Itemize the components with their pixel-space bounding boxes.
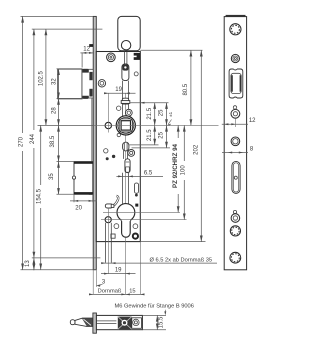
extension y=50.3 xyxy=(140,49,202,51)
dimension Dornmass / 15 xyxy=(90,293,145,295)
rod slot lines below case xyxy=(104,223,106,263)
small ring left xyxy=(104,149,108,153)
extension y=194.3 xyxy=(57,193,75,195)
lever (Wechsel) curved arm xyxy=(113,196,118,206)
bolt box (Riegel) xyxy=(74,162,93,195)
latch inside opening xyxy=(231,73,241,93)
dimension 12 top xyxy=(80,52,94,54)
faceplate lines extension below xyxy=(92,270,94,295)
dimension 25 upper xyxy=(166,103,168,126)
drive rod mid segment xyxy=(122,151,124,159)
small slot right mid xyxy=(134,183,138,193)
extension y=98.5 xyxy=(57,98,83,100)
ring hole cylinder level xyxy=(231,214,240,223)
dimension 154.5 xyxy=(40,125,42,269)
small dark dot left xyxy=(112,155,115,158)
svg-text:25: 25 xyxy=(159,109,165,116)
svg-text:21.5: 21.5 xyxy=(147,107,153,119)
extension y=102.7 xyxy=(130,102,169,104)
drive rod upper segment xyxy=(122,81,124,117)
plate dark top bar xyxy=(226,15,246,17)
dimension 102.5 xyxy=(45,29,47,125)
svg-text:244: 244 xyxy=(30,133,36,144)
serrated screw hole top xyxy=(230,24,241,35)
faceplate plate xyxy=(224,17,246,270)
dimension 12 right view xyxy=(222,123,248,125)
svg-text:28: 28 xyxy=(51,107,57,114)
rod connector hole xyxy=(121,41,130,50)
pin capsule mid xyxy=(125,159,130,173)
svg-text:19: 19 xyxy=(115,87,122,93)
dimension 270 xyxy=(22,16,24,269)
dimension 13 xyxy=(33,258,35,270)
latch bolt dark bar lower xyxy=(89,89,92,97)
svg-text:21.5: 21.5 xyxy=(147,129,153,141)
M6 dark box xyxy=(118,317,132,330)
svg-text:25: 25 xyxy=(159,131,165,138)
extension y=68.8 xyxy=(57,68,60,70)
svg-text:6.5: 6.5 xyxy=(144,170,153,176)
dimension 19 bottom xyxy=(101,273,136,275)
rod slot xyxy=(232,161,240,193)
extension y=161.6 xyxy=(57,161,75,163)
case right edge extension below xyxy=(139,242,141,295)
extension line y=29.1 xyxy=(32,28,103,30)
black nub on faceplate lower xyxy=(89,191,94,195)
black nub on faceplate upper xyxy=(89,44,93,47)
tiny hole above cylinder xyxy=(233,210,236,213)
latch tip cap xyxy=(70,320,75,325)
dimension 20 xyxy=(73,194,75,202)
top screw head xyxy=(107,53,116,62)
svg-text:PZ 92/CHRZ 94: PZ 92/CHRZ 94 xyxy=(172,143,179,188)
dimension 202 xyxy=(200,50,202,241)
latch bolt dark bottom notch xyxy=(82,96,89,99)
dimension 244 xyxy=(33,29,35,258)
spring anchor black blob at case top right xyxy=(137,53,141,60)
rod stem above spring capsule xyxy=(123,52,125,65)
faceplate top edge extension to left xyxy=(21,15,94,17)
follower rounded square xyxy=(119,119,132,132)
extension y=144.9 xyxy=(130,144,159,146)
extension y=147.9 xyxy=(132,147,171,149)
roller ring right of rod xyxy=(128,150,135,157)
latch bolt dark bar upper xyxy=(89,72,92,80)
tiny circle above follower xyxy=(117,106,121,110)
dark ring bottom right xyxy=(133,234,138,239)
dimension 19 top xyxy=(104,92,136,94)
second box with ring xyxy=(132,318,142,329)
svg-text:15.5: 15.5 xyxy=(158,316,164,328)
rod connector box top xyxy=(118,16,140,50)
upper fixing hole with crosshair xyxy=(105,122,111,128)
svg-text:202: 202 xyxy=(193,144,199,155)
dimension 38.5 xyxy=(58,125,60,161)
ring hole xyxy=(231,109,240,118)
dimension 25 lower xyxy=(166,125,168,147)
faceplate (edge-on strip) xyxy=(93,16,96,269)
cylinder keyhole channel xyxy=(122,220,131,237)
dimension 28 xyxy=(58,99,60,126)
serrated hole lower 1 xyxy=(230,226,240,236)
follower centerline xyxy=(93,124,218,126)
follower (nut) outer circle xyxy=(116,116,135,135)
central axis line xyxy=(125,93,127,294)
svg-text:Ø 6.5 2x ab Dornmaß 35: Ø 6.5 2x ab Dornmaß 35 xyxy=(150,257,213,263)
dimension 21.5 lower xyxy=(154,125,156,144)
latch opening xyxy=(229,69,243,98)
ring above follower xyxy=(125,109,132,116)
svg-text:102.5: 102.5 xyxy=(39,70,45,86)
latch bolt dark top notch xyxy=(82,69,89,73)
dimension 100 xyxy=(183,125,185,219)
tiny pin hole xyxy=(233,106,236,109)
lever foot capsule xyxy=(105,204,112,208)
spring capsule top xyxy=(122,64,129,81)
latch wedge xyxy=(75,318,93,326)
dimension 80.5 xyxy=(190,50,192,125)
dimension 32 xyxy=(58,69,60,99)
cylinder keyhole circle xyxy=(117,204,135,222)
serrated hole lower 2 xyxy=(230,252,241,263)
latch bolt behind plate xyxy=(82,69,93,98)
svg-text:154.5: 154.5 xyxy=(37,188,43,204)
black blob near cylinder top right xyxy=(135,204,138,207)
svg-text:270: 270 xyxy=(19,136,25,147)
dimension 35 xyxy=(58,162,60,195)
extension y=241.6 xyxy=(140,241,205,243)
svg-text:20: 20 xyxy=(75,206,82,212)
latch wedge dark bevel xyxy=(82,318,93,326)
side case xyxy=(96,315,142,329)
svg-text:M6 Gewinde für Stange B 9006: M6 Gewinde für Stange B 9006 xyxy=(115,303,194,309)
small square bottom left xyxy=(111,234,115,238)
drive rod lower segment xyxy=(122,173,124,204)
svg-text:32: 32 xyxy=(51,78,57,85)
svg-text:±1: ±1 xyxy=(168,111,173,117)
extension line y=257.9 xyxy=(32,257,101,259)
latch head xyxy=(58,69,82,99)
svg-text:Dornmaß: Dornmaß xyxy=(98,288,122,294)
screw hole mid xyxy=(231,137,240,146)
svg-text:80.5: 80.5 xyxy=(183,83,189,95)
clevis block xyxy=(123,142,129,151)
dimension 8 right view xyxy=(222,152,248,154)
small circle right of capsule xyxy=(134,72,138,76)
follower square hole xyxy=(121,121,130,130)
svg-text:15: 15 xyxy=(129,288,135,294)
svg-text:35: 35 xyxy=(49,173,55,180)
plate slot line latch to bolt xyxy=(91,99,93,162)
dimension 21.5 upper xyxy=(154,103,156,126)
dimension 15.5 xyxy=(142,314,166,316)
leader line for oe 6.5 text xyxy=(102,262,217,264)
latch guide ring on faceplate xyxy=(98,80,105,87)
faceplate bottom edge extension to left xyxy=(21,269,97,271)
tiny circle below follower left xyxy=(117,133,120,136)
lower fixing hole with crosshair xyxy=(105,217,111,223)
svg-text:12: 12 xyxy=(249,118,256,124)
M6 leader arrow xyxy=(164,310,166,314)
svg-text:12: 12 xyxy=(83,46,90,52)
dimension 6.5 xyxy=(116,175,163,177)
extension line y=125.4 left xyxy=(38,124,94,126)
small circle left of cylinder xyxy=(114,224,119,229)
small circle right of cylinder xyxy=(133,224,138,229)
svg-text:13: 13 xyxy=(25,260,31,267)
svg-text:100: 100 xyxy=(180,165,186,176)
lock case xyxy=(96,52,140,242)
svg-text:19: 19 xyxy=(115,268,122,274)
countersunk hole xyxy=(231,54,239,62)
cylinder centerline xyxy=(103,211,180,213)
dimension PZ 92 / CHRZ 94 xyxy=(177,125,179,212)
svg-text:38.5: 38.5 xyxy=(50,135,56,147)
side faceplate bar xyxy=(93,313,97,333)
rod T-block pin xyxy=(122,98,128,104)
latch shaft lines inside xyxy=(96,320,116,322)
